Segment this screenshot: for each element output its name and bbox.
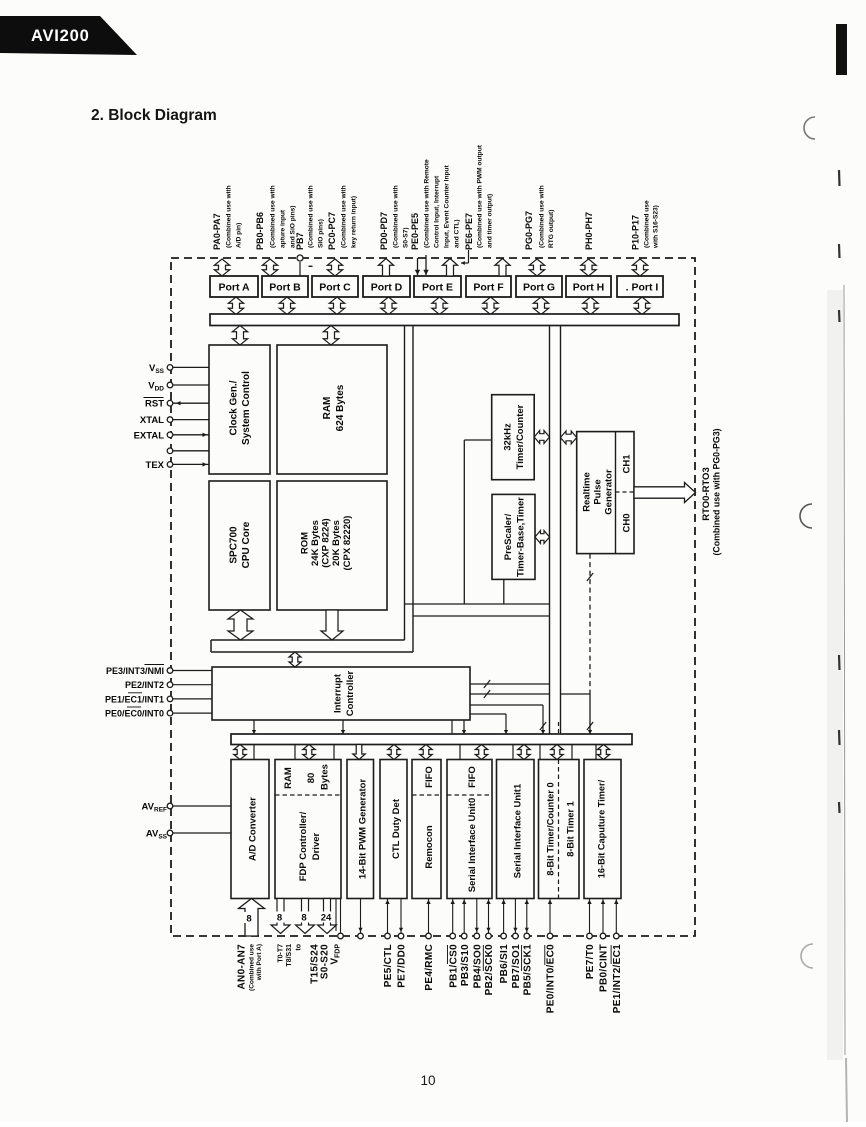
svg-text:PE0/INT0/EC0: PE0/INT0/EC0 (546, 944, 557, 1013)
svg-text:Generator: Generator (603, 469, 614, 515)
svg-text:PE3/INT3/NMI: PE3/INT3/NMI (106, 666, 164, 676)
svg-text:PD0-PD7: PD0-PD7 (379, 212, 389, 250)
svg-text:Port H: Port H (573, 282, 605, 294)
svg-text:RAM: RAM (322, 397, 333, 420)
svg-text:T8/S31: T8/S31 (286, 944, 293, 967)
svg-text:Port G: Port G (523, 282, 555, 294)
svg-text:14-Bit PWM Generator: 14-Bit PWM Generator (357, 779, 368, 880)
svg-text:Bytes: Bytes (319, 764, 330, 790)
svg-text:PE0/EC0/INT0: PE0/EC0/INT0 (105, 709, 164, 719)
svg-text:RTG output): RTG output) (548, 210, 555, 248)
svg-text:PB0-PB6: PB0-PB6 (255, 212, 265, 250)
svg-text:Realtime: Realtime (581, 472, 592, 512)
svg-text:Port D: Port D (371, 282, 403, 294)
svg-text:8: 8 (301, 913, 306, 924)
svg-text:PB0/CINT: PB0/CINT (599, 944, 610, 992)
svg-text:AVI200: AVI200 (31, 27, 90, 45)
svg-text:Port E: Port E (422, 282, 453, 294)
svg-text:CH1: CH1 (621, 454, 632, 474)
svg-text:Clock Gen./: Clock Gen./ (229, 380, 240, 435)
svg-text:and timer output): and timer output) (486, 194, 493, 248)
svg-text:Driver: Driver (311, 832, 322, 860)
svg-text:(Combined use with: (Combined use with (269, 185, 276, 248)
svg-text:PG0-PG7: PG0-PG7 (524, 211, 534, 250)
svg-text:Port A: Port A (218, 282, 250, 294)
svg-text:Pulse: Pulse (592, 479, 603, 504)
svg-text:PB1/CS0: PB1/CS0 (448, 944, 459, 988)
svg-text:PB3/S10: PB3/S10 (460, 944, 471, 986)
svg-text:624 Bytes: 624 Bytes (335, 384, 346, 431)
svg-text:PH0-PH7: PH0-PH7 (584, 212, 594, 250)
svg-text:8-Bit Timer 1: 8-Bit Timer 1 (565, 801, 575, 856)
svg-text:(CPX 82220): (CPX 82220) (342, 516, 353, 571)
svg-text:24: 24 (321, 913, 332, 924)
svg-text:CPU Core: CPU Core (241, 521, 252, 568)
svg-text:Controller: Controller (345, 671, 356, 717)
svg-text:PB6/SI1: PB6/SI1 (499, 944, 510, 983)
svg-text:Control Input, Interrupt: Control Input, Interrupt (433, 175, 440, 248)
svg-text:Serial Interface Unit1: Serial Interface Unit1 (512, 783, 523, 878)
svg-text:Timer/Counter: Timer/Counter (515, 404, 526, 469)
svg-text:80: 80 (306, 773, 317, 784)
svg-text:ROM: ROM (299, 532, 310, 554)
svg-text:RST: RST (145, 399, 164, 410)
svg-text:(Combined use with Remote: (Combined use with Remote (423, 159, 430, 248)
svg-text:PE5/CTL: PE5/CTL (383, 944, 394, 987)
svg-text:XTAL: XTAL (140, 415, 164, 426)
svg-text:(Combined use: (Combined use (248, 944, 255, 991)
svg-text:CH0: CH0 (621, 513, 632, 532)
svg-text:(Combined use with: (Combined use with (307, 185, 314, 248)
svg-text:(Combined use with PWM output: (Combined use with PWM output (476, 144, 483, 248)
svg-text:SIO pins): SIO pins) (317, 219, 324, 248)
svg-text:(CXP 8224): (CXP 8224) (321, 518, 332, 567)
svg-text:PB2/SCK0: PB2/SCK0 (484, 944, 495, 995)
svg-text:(Combined use with: (Combined use with (538, 185, 545, 248)
svg-text:with S16-S23): with S16-S23) (652, 205, 659, 249)
svg-text:8: 8 (277, 913, 282, 924)
svg-text:RAM: RAM (283, 767, 294, 789)
svg-text:8-Bit Timer/Counter 0: 8-Bit Timer/Counter 0 (545, 782, 555, 875)
svg-text:PE0-PE5: PE0-PE5 (410, 213, 420, 250)
svg-text:A/D pin): A/D pin) (235, 223, 242, 248)
svg-text:PE1/EC1/INT1: PE1/EC1/INT1 (105, 694, 164, 704)
svg-text:and CTL): and CTL) (453, 219, 460, 248)
svg-text:Timer-Base,Timer: Timer-Base,Timer (515, 497, 526, 577)
svg-text:Port C: Port C (319, 282, 351, 294)
svg-text:(Combined use with: (Combined use with (392, 185, 399, 248)
svg-text:PE6-PE7: PE6-PE7 (464, 213, 474, 250)
svg-text:2. Block Diagram: 2. Block Diagram (91, 107, 217, 124)
svg-text:PE7/T0: PE7/T0 (585, 944, 596, 979)
svg-text:(Combined use: (Combined use (643, 200, 650, 248)
svg-text:apture input: apture input (279, 209, 286, 248)
svg-text:FIFO: FIFO (467, 766, 478, 788)
svg-text:S0-S7): S0-S7) (402, 227, 409, 248)
svg-text:10: 10 (420, 1073, 435, 1088)
svg-text:with Port A): with Port A) (256, 944, 263, 981)
svg-text:P10-P17: P10-P17 (631, 215, 641, 250)
svg-text:EXTAL: EXTAL (134, 430, 165, 441)
svg-text:(Combined use with: (Combined use with (225, 185, 232, 248)
svg-text:TEX: TEX (146, 460, 165, 471)
svg-text:Port B: Port B (269, 282, 301, 294)
svg-text:PE1/INT2/EC1: PE1/INT2/EC1 (612, 944, 623, 1013)
svg-text:Port F: Port F (473, 282, 504, 294)
svg-text:Interrupt: Interrupt (332, 673, 343, 713)
svg-text:20K Bytes: 20K Bytes (331, 520, 342, 566)
svg-text:SPC700: SPC700 (229, 526, 240, 564)
svg-text:PB5/SCK1: PB5/SCK1 (522, 944, 533, 995)
svg-text:PA0-PA7: PA0-PA7 (212, 213, 222, 250)
svg-text:PE7/DD0: PE7/DD0 (397, 944, 408, 988)
svg-text:Serial Interface Unit0: Serial Interface Unit0 (467, 798, 478, 893)
svg-text:PE4/RMC: PE4/RMC (424, 944, 435, 991)
svg-text:AN0-AN7: AN0-AN7 (237, 944, 248, 990)
svg-text:PB7/SO1: PB7/SO1 (511, 944, 522, 988)
svg-text:CTL Duty Det: CTL Duty Det (391, 798, 402, 859)
svg-text:RTO0-RTO3: RTO0-RTO3 (701, 467, 712, 521)
svg-text:8: 8 (246, 914, 251, 925)
svg-text:PC0-PC7: PC0-PC7 (327, 212, 337, 250)
svg-text:key return input): key return input) (350, 196, 357, 248)
svg-text:32kHz: 32kHz (502, 423, 513, 451)
svg-text:Remocon: Remocon (424, 825, 435, 868)
svg-text:T0-T7: T0-T7 (278, 944, 285, 963)
svg-text:System Control: System Control (241, 371, 252, 445)
svg-text:to: to (296, 944, 303, 951)
svg-text:PE2/INT2: PE2/INT2 (125, 680, 164, 690)
svg-text:(Combined use with: (Combined use with (340, 185, 347, 248)
svg-text:FIFO: FIFO (424, 766, 435, 788)
svg-text:PB7: PB7 (295, 232, 305, 250)
svg-text:Input, Event Counter Input: Input, Event Counter Input (443, 164, 450, 248)
svg-text:. Port I: . Port I (626, 282, 659, 294)
svg-text:PB4/SO0: PB4/SO0 (472, 944, 483, 988)
svg-text:A/D Converter: A/D Converter (247, 797, 258, 861)
svg-text:(Combined use with PG0-PG3): (Combined use with PG0-PG3) (712, 428, 722, 555)
svg-text:FDP Controller/: FDP Controller/ (298, 811, 309, 881)
svg-text:24K Bytes: 24K Bytes (310, 520, 321, 566)
svg-text:PreScaler/: PreScaler/ (503, 513, 514, 560)
svg-text:16-Bit Caputure Timer/: 16-Bit Caputure Timer/ (596, 779, 606, 878)
